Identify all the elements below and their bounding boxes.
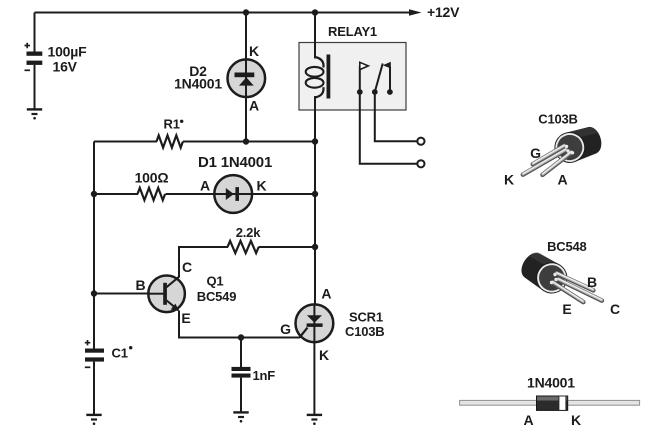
- BC548 lead C: [558, 279, 602, 301]
- svg-text:+12V: +12V: [427, 4, 460, 20]
- node junction D1 row / column: [312, 191, 318, 197]
- node junction top rail / D2 branch: [243, 9, 249, 15]
- svg-text:A: A: [558, 171, 568, 187]
- C103B lead root highlights: [565, 145, 574, 155]
- node junction R1/relay coil column: [312, 138, 318, 144]
- wire 100ohm to D1: [166, 193, 215, 195]
- svg-text:SCR1: SCR1: [349, 309, 383, 324]
- svg-text:G: G: [280, 321, 291, 337]
- svg-text:C: C: [182, 259, 192, 275]
- SCR1 C103B: [296, 304, 334, 342]
- relay contact 3 fixed (solid flag): [383, 62, 393, 95]
- +12V arrowhead: [409, 9, 422, 15]
- svg-text:R1: R1: [164, 117, 180, 132]
- BC548 body: [516, 247, 573, 299]
- wire 2.2k row right: [259, 246, 316, 248]
- svg-text:2.2k: 2.2k: [236, 225, 261, 240]
- svg-text:K: K: [504, 171, 514, 187]
- svg-text:16V: 16V: [53, 58, 78, 74]
- svg-text:C1: C1: [112, 346, 128, 361]
- svg-text:100Ω: 100Ω: [135, 169, 169, 185]
- svg-text:K: K: [319, 347, 329, 363]
- ground (C1): [86, 415, 101, 425]
- svg-text:K: K: [249, 43, 259, 59]
- BC548 lead E: [553, 282, 584, 302]
- wire 1nF to ground: [240, 378, 242, 412]
- wire SCR cathode to ground: [313, 342, 315, 414]
- wire 100uF branch top: [34, 13, 36, 53]
- resistor 100ohm: [138, 188, 166, 200]
- wire D1 to column: [252, 193, 315, 195]
- capacitor 100uF 16V: [25, 43, 43, 71]
- wire R1 row right: [183, 141, 315, 143]
- wire relay contact 1 to terminal: [360, 92, 417, 164]
- capacitor C1: [85, 340, 104, 367]
- svg-text:D1 1N4001: D1 1N4001: [198, 154, 272, 171]
- node junction base row: [91, 290, 97, 296]
- BC548 lead root highlights: [550, 273, 558, 284]
- resistor 2.2k: [228, 241, 259, 253]
- svg-text:C103B: C103B: [345, 324, 384, 339]
- label C1: [112, 346, 133, 361]
- node junction R1/D2: [243, 138, 249, 144]
- svg-text:E: E: [562, 301, 571, 317]
- wire left branch vertical: [93, 142, 95, 349]
- svg-text:A: A: [200, 177, 210, 193]
- relay contact 2 moving arm: [372, 64, 383, 95]
- svg-text:A: A: [524, 412, 534, 428]
- wire 100uF to ground: [34, 65, 36, 109]
- relay contact 1 fixed (hollow flag): [357, 62, 368, 95]
- package photo C103B: [523, 123, 605, 174]
- C103B lead K: [523, 149, 566, 174]
- wire emitter down: [179, 311, 300, 338]
- wire collector up: [178, 247, 180, 278]
- node junction 100ohm row: [91, 191, 97, 197]
- wire 1nF down: [240, 338, 242, 368]
- svg-text:1N4001: 1N4001: [174, 75, 222, 91]
- capacitor 1nF: [232, 367, 251, 378]
- svg-text:BC548: BC548: [547, 239, 586, 254]
- terminal circle lower: [417, 160, 424, 167]
- resistor R1: [157, 135, 183, 147]
- package photo 1N4001: [460, 396, 640, 410]
- svg-text:A: A: [321, 285, 331, 301]
- wire 2.2k row left: [178, 246, 228, 248]
- ground (1nF): [233, 412, 248, 422]
- relay RELAY1 box: [299, 43, 406, 111]
- node junction 1nF tap: [238, 334, 244, 340]
- wire base to Q1: [94, 293, 149, 295]
- wire R1 row left: [94, 141, 157, 143]
- wire 100ohm row left: [94, 193, 138, 195]
- C103B lead A: [543, 152, 572, 175]
- svg-text:A: A: [249, 97, 259, 113]
- svg-text:BC549: BC549: [197, 289, 236, 304]
- svg-text:C: C: [610, 301, 620, 317]
- wire C1 to ground: [93, 362, 95, 414]
- wire relay coil branch from rail: [314, 13, 316, 58]
- wire relay column to SCR: [314, 142, 316, 306]
- svg-text:1nF: 1nF: [253, 368, 276, 383]
- diode D1: [214, 175, 252, 213]
- svg-text:B: B: [136, 277, 146, 293]
- ground (100uF): [27, 109, 42, 119]
- C103B lead G: [533, 145, 565, 164]
- label R1: [164, 117, 184, 132]
- svg-text:1N4001: 1N4001: [527, 374, 575, 390]
- wire relay contact 2 to terminal: [375, 92, 417, 141]
- transistor Q1 BC549: [148, 276, 185, 313]
- svg-text:RELAY1: RELAY1: [328, 24, 377, 39]
- BC548 lead B: [557, 273, 594, 291]
- svg-text:G: G: [530, 145, 541, 161]
- 1N4001 body: [537, 396, 568, 410]
- svg-text:100µF: 100µF: [48, 43, 88, 59]
- svg-text:Q1: Q1: [207, 274, 224, 289]
- svg-text:C103B: C103B: [538, 112, 577, 127]
- relay coil: [306, 55, 331, 142]
- diode D2: [228, 59, 266, 97]
- package photo BC548: [516, 247, 602, 302]
- wire D2 branch: [245, 13, 247, 142]
- node junction top rail / relay coil branch: [312, 9, 318, 15]
- svg-text:E: E: [181, 310, 190, 326]
- 1N4001 lead wire: [460, 400, 640, 405]
- terminal circle upper: [417, 138, 424, 145]
- wire +12V top rail: [35, 12, 411, 14]
- svg-text:B: B: [587, 274, 597, 290]
- svg-text:K: K: [571, 412, 581, 428]
- svg-text:K: K: [257, 177, 267, 193]
- ground (SCR): [307, 415, 322, 425]
- node junction 2.2k row / column: [312, 244, 318, 250]
- C103B body: [551, 123, 606, 166]
